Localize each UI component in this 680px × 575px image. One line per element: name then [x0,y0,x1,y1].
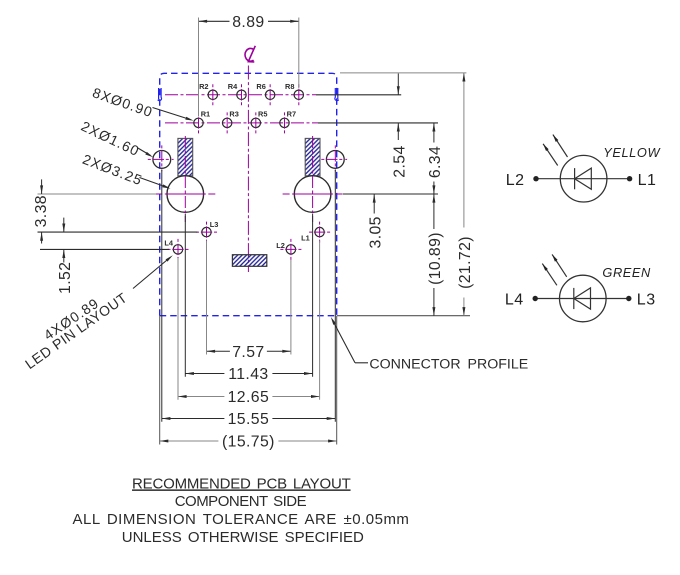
pad R2 [199,82,217,105]
extension line top right [340,72,466,74]
svg-text:L2: L2 [506,172,525,189]
svg-text:2.54: 2.54 [392,145,409,177]
extension line mount row right [343,193,438,195]
row centerline R1 R3 R5 R7 [165,122,318,124]
extension line profile bottom right [337,315,470,317]
svg-text:ALL DIMENSION TOLERANCE ARE ±0: ALL DIMENSION TOLERANCE ARE ±0.05mm [73,511,410,528]
LED yellow symbol [506,135,662,202]
dimension 15.55 [162,170,335,428]
dimension 8.89 [199,14,299,116]
svg-text:11.43: 11.43 [228,366,268,383]
svg-text:(10.89): (10.89) [427,232,444,285]
svg-text:1.52: 1.52 [57,262,74,294]
dimension (10.89) [427,194,444,316]
dimension 3.38 [33,179,50,243]
extension line row L4 [40,248,169,250]
dimension 7.57 [207,241,291,361]
svg-text:R3: R3 [229,110,238,119]
svg-text:(21.72): (21.72) [457,236,474,289]
svg-text:R7: R7 [287,110,296,119]
svg-text:7.57: 7.57 [232,344,264,361]
vertical centerline [247,66,249,273]
leader 2X round 1.60 [79,118,153,160]
dimension 12.65 [178,241,320,407]
svg-text:COMPONENT SIDE: COMPONENT SIDE [175,493,307,510]
svg-text:GREEN: GREEN [602,265,651,280]
svg-text:L3: L3 [637,292,656,309]
hole right 2X round 1.60 [321,145,349,173]
pad R6 [256,82,274,105]
connector profile outline [160,73,337,315]
svg-text:(15.75): (15.75) [222,434,275,451]
mounting hole left 2X round 3.25 [155,136,215,222]
note recommended pcb layout [132,475,351,492]
dimension (15.75) [160,316,337,451]
svg-text:3.05: 3.05 [367,216,384,248]
svg-text:UNLESS OTHERWISE SPECIFIED: UNLESS OTHERWISE SPECIFIED [122,529,364,546]
dimension 11.43 [185,214,312,383]
pad R5 [251,110,267,134]
extension line row L3 [38,231,198,233]
leader 2X round 3.25 [80,151,170,189]
note tolerance [73,511,410,528]
svg-text:15.55: 15.55 [228,411,270,428]
svg-text:L4: L4 [505,292,524,309]
pad R7 [280,110,296,134]
dimension 2.54 [392,74,409,178]
svg-text:R6: R6 [256,82,265,91]
profile latch notch right [335,88,339,101]
pad R3 [222,110,238,134]
LED green symbol [505,254,656,321]
pad L3 [196,220,218,243]
svg-text:8.89: 8.89 [232,14,264,31]
svg-text:6.34: 6.34 [427,146,444,178]
leader 4X round 0.89 LED PIN LAYOUT [22,255,173,372]
leader CONNECTOR PROFILE [331,317,528,373]
center polarization slot hatched [232,255,266,267]
note unless otherwise specified [122,529,364,546]
pad R4 [228,82,246,105]
pad R1 [194,110,210,134]
pad L4 [164,239,188,260]
svg-text:L1: L1 [638,172,657,189]
note component side [175,493,307,510]
svg-text:R1: R1 [201,110,210,119]
centerline symbol [245,46,255,62]
svg-text:12.65: 12.65 [228,389,270,406]
leader 8X round 0.90 [90,84,193,120]
mounting hole right 2X round 3.25 [283,136,343,222]
pad L2 [276,239,301,260]
pad R8 [285,82,303,105]
svg-text:R8: R8 [285,82,294,91]
shield tab hatched left [178,138,193,175]
dimension 6.34 [427,123,444,194]
svg-text:3.38: 3.38 [33,195,50,227]
svg-text:R2: R2 [199,82,208,91]
extension line row R2 [316,94,401,96]
svg-text:L2: L2 [276,241,285,250]
dimension 1.52 [57,218,74,294]
svg-text:RECOMMENDED PCB LAYOUT: RECOMMENDED PCB LAYOUT [132,475,351,492]
shield tab hatched right [305,138,320,175]
pad L1 [301,222,330,243]
svg-text:CONNECTOR PROFILE: CONNECTOR PROFILE [369,356,528,372]
svg-text:R4: R4 [228,82,238,91]
profile latch notch left [158,88,162,101]
dimension 3.05 [367,194,384,248]
svg-text:YELLOW: YELLOW [603,145,661,160]
svg-text:L3: L3 [210,220,219,229]
svg-text:L4: L4 [164,239,174,248]
row centerline R2 R4 R6 R8 [165,94,316,96]
svg-text:L1: L1 [301,233,310,242]
hole left 2X round 1.60 [148,145,176,173]
dimension (21.72) [457,73,474,316]
extension line row R1 [318,122,438,124]
svg-text:R5: R5 [258,110,267,119]
extension line mount row left [38,193,157,195]
